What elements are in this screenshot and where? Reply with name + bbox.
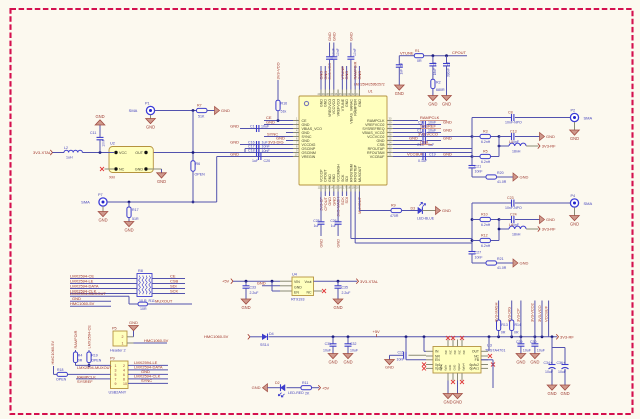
svg-text:R6: R6 xyxy=(196,162,201,166)
svg-text:VCCBUF: VCCBUF xyxy=(543,305,548,322)
svg-text:51K: 51K xyxy=(198,115,205,119)
svg-text:C5: C5 xyxy=(433,62,437,66)
svg-text:C26: C26 xyxy=(330,219,336,223)
svg-text:GND: GND xyxy=(453,365,457,371)
svg-text:+5V: +5V xyxy=(322,385,330,390)
svg-text:L4: L4 xyxy=(509,223,513,227)
svg-text:GND: GND xyxy=(221,108,230,113)
svg-text:SMA: SMA xyxy=(81,200,90,205)
svg-text:RT9193: RT9193 xyxy=(291,298,304,302)
svg-text:2.2uF: 2.2uF xyxy=(342,291,351,295)
svg-text:GND: GND xyxy=(570,136,579,141)
svg-text:C25: C25 xyxy=(313,219,319,223)
svg-text:EN: EN xyxy=(294,291,299,295)
svg-text:GND: GND xyxy=(146,125,155,130)
svg-text:HMC1060-5V: HMC1060-5V xyxy=(50,341,55,365)
svg-text:6.2nH: 6.2nH xyxy=(481,160,491,164)
svg-text:10uF: 10uF xyxy=(558,370,566,374)
svg-text:GND: GND xyxy=(570,222,579,227)
svg-text:U4: U4 xyxy=(292,273,297,277)
svg-text:RAMPCLK: RAMPCLK xyxy=(420,115,440,120)
svg-text:EN: EN xyxy=(435,358,440,362)
svg-text:P9: P9 xyxy=(110,357,115,361)
svg-text:+5V: +5V xyxy=(222,279,230,284)
svg-text:41.0R: 41.0R xyxy=(497,266,507,270)
svg-text:10: 10 xyxy=(123,382,127,386)
svg-text:3V3-DIG: 3V3-DIG xyxy=(507,307,512,322)
svg-text:P7: P7 xyxy=(98,193,103,197)
svg-text:GND: GND xyxy=(333,305,342,310)
svg-text:10nF: 10nF xyxy=(475,170,483,174)
svg-text:GND: GND xyxy=(320,239,324,248)
svg-text:GND: GND xyxy=(443,400,452,405)
svg-text:C19: C19 xyxy=(429,152,436,156)
svg-text:GND: GND xyxy=(560,391,569,396)
svg-text:C23: C23 xyxy=(507,196,514,200)
svg-text:1: 1 xyxy=(115,364,117,368)
svg-text:GND: GND xyxy=(230,123,239,128)
svg-text:GND: GND xyxy=(442,102,451,107)
svg-text:1uF: 1uF xyxy=(252,159,259,163)
svg-text:4: 4 xyxy=(123,368,125,372)
svg-text:CPOUT: CPOUT xyxy=(452,50,467,55)
svg-text:R3: R3 xyxy=(483,130,488,134)
svg-text:MUXOUT: MUXOUT xyxy=(155,299,173,304)
svg-text:C31: C31 xyxy=(325,342,331,346)
svg-text:MUXOUT: MUXOUT xyxy=(358,166,362,182)
svg-text:LMX2594-MUXOUT: LMX2594-MUXOUT xyxy=(77,365,112,370)
svg-text:GND: GND xyxy=(442,208,451,213)
svg-text:10nF: 10nF xyxy=(262,149,271,153)
svg-text:9: 9 xyxy=(115,382,117,386)
svg-text:GND: GND xyxy=(428,102,437,107)
svg-text:VTUNE: VTUNE xyxy=(400,50,414,55)
svg-text:GND: GND xyxy=(348,32,353,41)
svg-text:OPEN: OPEN xyxy=(195,173,206,177)
svg-text:GND: GND xyxy=(530,360,539,365)
svg-text:R13: R13 xyxy=(501,323,507,327)
svg-text:R2: R2 xyxy=(436,81,441,85)
svg-text:1uH: 1uH xyxy=(66,156,73,160)
svg-text:7: 7 xyxy=(115,377,117,381)
svg-text:C11: C11 xyxy=(90,131,96,135)
svg-text:10nF: 10nF xyxy=(102,139,106,147)
svg-text:GND: GND xyxy=(546,217,555,222)
svg-text:GND: GND xyxy=(129,320,138,325)
svg-text:SMA: SMA xyxy=(584,201,593,206)
svg-text:Vout: Vout xyxy=(304,280,311,284)
svg-text:C4: C4 xyxy=(399,63,403,67)
svg-text:GND: GND xyxy=(443,151,452,156)
svg-text:3V3-RF: 3V3-RF xyxy=(542,227,556,232)
svg-text:C35: C35 xyxy=(342,286,348,290)
svg-text:OPEN: OPEN xyxy=(91,359,101,363)
svg-text:R16: R16 xyxy=(281,102,288,106)
svg-text:L2: L2 xyxy=(64,146,68,150)
svg-text:GND: GND xyxy=(331,32,336,41)
svg-text:6pAv1: 6pAv1 xyxy=(469,367,479,371)
svg-text:VREGIN: VREGIN xyxy=(302,155,316,159)
svg-text:C13: C13 xyxy=(510,130,517,134)
svg-text:3V3-RF: 3V3-RF xyxy=(542,144,556,149)
svg-text:18nF: 18nF xyxy=(433,68,437,75)
svg-text:D2: D2 xyxy=(275,381,280,385)
svg-text:R19: R19 xyxy=(91,354,97,358)
svg-text:6.2nH: 6.2nH xyxy=(481,244,491,248)
svg-text:8: 8 xyxy=(123,377,125,381)
svg-text:GND: GND xyxy=(328,360,337,365)
svg-text:GND: GND xyxy=(516,360,525,365)
svg-text:GND: GND xyxy=(124,228,133,233)
svg-text:C6: C6 xyxy=(447,62,451,66)
svg-text:18nH: 18nH xyxy=(512,232,521,236)
svg-text:3V3-CP: 3V3-CP xyxy=(516,308,521,322)
svg-text:0R: 0R xyxy=(514,331,519,335)
svg-text:D3: D3 xyxy=(411,206,416,210)
svg-text:R21: R21 xyxy=(497,257,504,261)
svg-text:R5: R5 xyxy=(483,150,488,154)
svg-text:GND: GND xyxy=(135,168,144,172)
svg-text:10uF: 10uF xyxy=(323,349,331,353)
svg-text:SCK: SCK xyxy=(170,288,179,293)
svg-text:470R: 470R xyxy=(390,214,399,218)
svg-text:10R: 10R xyxy=(140,307,147,311)
svg-text:C1: C1 xyxy=(250,124,255,128)
svg-text:SS14: SS14 xyxy=(260,343,269,347)
svg-text:C27: C27 xyxy=(475,251,482,255)
svg-text:6p3v2: 6p3v2 xyxy=(457,363,461,371)
svg-text:3V3-VCO: 3V3-VCO xyxy=(537,305,542,322)
svg-text:C36: C36 xyxy=(557,361,563,365)
svg-text:390nF: 390nF xyxy=(447,68,451,77)
svg-text:SYSREF: SYSREF xyxy=(77,379,93,384)
svg-text:C30: C30 xyxy=(530,340,536,344)
svg-text:10nF-NPO: 10nF-NPO xyxy=(505,120,522,124)
svg-text:+5V: +5V xyxy=(373,329,381,334)
svg-text:3V3-VCO2: 3V3-VCO2 xyxy=(530,303,535,322)
svg-text:10nF: 10nF xyxy=(353,48,357,56)
svg-text:0R: 0R xyxy=(501,331,506,335)
svg-text:2: 2 xyxy=(123,364,125,368)
svg-text:OUT: OUT xyxy=(472,350,479,354)
svg-text:HMC1060-5V: HMC1060-5V xyxy=(144,338,169,343)
svg-text:P5: P5 xyxy=(112,327,117,331)
svg-text:VCCBUF: VCCBUF xyxy=(370,155,386,159)
svg-text:GND: GND xyxy=(257,281,266,286)
svg-text:R8: R8 xyxy=(138,269,143,273)
svg-text:0R: 0R xyxy=(78,359,83,363)
svg-text:GND: GND xyxy=(547,391,556,396)
svg-text:6p3v: 6p3v xyxy=(444,364,448,370)
svg-text:C29: C29 xyxy=(516,340,522,344)
svg-text:LED-BLUE: LED-BLUE xyxy=(417,216,435,220)
svg-text:1nF: 1nF xyxy=(399,69,403,75)
svg-text:GND: GND xyxy=(343,360,352,365)
svg-text:GND: GND xyxy=(252,385,261,390)
svg-text:R9: R9 xyxy=(391,204,396,208)
svg-text:10nF: 10nF xyxy=(397,357,405,361)
svg-text:10uF: 10uF xyxy=(545,370,553,374)
svg-text:0.1uF: 0.1uF xyxy=(418,159,428,163)
svg-text:GND: GND xyxy=(95,114,104,119)
svg-text:GND: GND xyxy=(357,71,362,80)
svg-text:NC: NC xyxy=(306,291,312,295)
svg-text:51R: 51R xyxy=(132,217,139,221)
svg-text:10uF: 10uF xyxy=(537,349,545,353)
svg-text:GND: GND xyxy=(453,400,462,405)
svg-text:GND: GND xyxy=(157,179,166,184)
svg-text:C24: C24 xyxy=(510,213,517,217)
svg-text:1uF: 1uF xyxy=(331,224,337,228)
svg-text:10uF: 10uF xyxy=(261,124,270,128)
svg-text:GND: GND xyxy=(520,261,529,266)
svg-text:GND: GND xyxy=(395,91,404,96)
svg-text:10uF: 10uF xyxy=(523,349,531,353)
svg-text:P2: P2 xyxy=(571,109,576,113)
svg-text:RAMPDIR: RAMPDIR xyxy=(73,330,78,348)
svg-text:C15: C15 xyxy=(398,350,404,354)
svg-text:10nF-NPO: 10nF-NPO xyxy=(505,206,522,210)
svg-text:FB: FB xyxy=(475,358,480,362)
svg-text:R7: R7 xyxy=(197,104,202,108)
svg-text:R11: R11 xyxy=(302,381,308,385)
svg-text:LMX2594-CE: LMX2594-CE xyxy=(86,325,91,349)
svg-text:VCC: VCC xyxy=(119,151,127,155)
svg-text:VIN: VIN xyxy=(294,280,300,284)
svg-text:R12: R12 xyxy=(481,234,488,238)
svg-text:6.2nH: 6.2nH xyxy=(481,223,491,227)
svg-text:TPS7A4701: TPS7A4701 xyxy=(485,349,505,353)
svg-text:C32: C32 xyxy=(350,342,356,346)
svg-text:C8: C8 xyxy=(508,111,513,115)
svg-text:0R: 0R xyxy=(417,59,422,63)
svg-text:10nF: 10nF xyxy=(475,256,483,260)
svg-text:3V3-RF: 3V3-RF xyxy=(560,334,574,339)
svg-text:R10: R10 xyxy=(481,213,488,217)
svg-text:3V3-XTAL: 3V3-XTAL xyxy=(360,279,379,284)
svg-text:3V3-VCO: 3V3-VCO xyxy=(276,62,281,79)
svg-text:GND: GND xyxy=(385,365,394,370)
svg-text:R1: R1 xyxy=(415,49,420,53)
svg-text:GND: GND xyxy=(241,305,250,310)
svg-text:6p4v: 6p4v xyxy=(439,364,443,370)
svg-text:L1: L1 xyxy=(509,140,513,144)
svg-text:GND: GND xyxy=(448,365,452,371)
svg-text:Header 2: Header 2 xyxy=(110,349,126,353)
svg-text:D4: D4 xyxy=(269,332,274,336)
svg-text:10nF: 10nF xyxy=(336,48,340,56)
svg-text:GND: GND xyxy=(344,71,349,80)
svg-text:USB2ANY: USB2ANY xyxy=(109,391,127,395)
svg-text:NC: NC xyxy=(119,168,125,172)
svg-text:6.2nH: 6.2nH xyxy=(481,140,491,144)
svg-text:GND: GND xyxy=(409,135,418,140)
svg-text:C21: C21 xyxy=(475,165,482,169)
svg-text:C20: C20 xyxy=(264,159,271,163)
svg-text:R18: R18 xyxy=(57,368,63,372)
svg-text:18nH: 18nH xyxy=(512,149,521,153)
svg-text:HMC1060-5V: HMC1060-5V xyxy=(70,301,95,306)
svg-text:GND: GND xyxy=(98,218,107,223)
svg-text:IN: IN xyxy=(435,350,439,354)
svg-text:41.0R: 41.0R xyxy=(497,180,507,184)
svg-text:6p0v4: 6p0v4 xyxy=(462,363,466,371)
svg-text:1uF: 1uF xyxy=(314,224,320,228)
svg-text:SMA: SMA xyxy=(129,108,138,113)
svg-text:R4: R4 xyxy=(78,354,83,358)
svg-text:GND: GND xyxy=(546,134,555,139)
svg-text:3V3-MASH: 3V3-MASH xyxy=(493,302,498,322)
svg-text:GND: GND xyxy=(443,135,452,140)
svg-text:OUT: OUT xyxy=(135,151,144,155)
svg-text:2K: 2K xyxy=(305,392,310,396)
svg-text:U2: U2 xyxy=(110,142,115,146)
svg-text:GND: GND xyxy=(520,175,529,180)
svg-text:OPEN: OPEN xyxy=(56,377,67,381)
svg-text:C34: C34 xyxy=(544,361,550,365)
svg-text:GND: GND xyxy=(337,239,341,248)
svg-text:R14: R14 xyxy=(515,323,521,327)
svg-text:GND: GND xyxy=(230,151,239,156)
svg-text:SMA: SMA xyxy=(584,115,593,120)
svg-text:680R: 680R xyxy=(436,88,445,92)
svg-text:51k: 51k xyxy=(281,110,287,114)
svg-text:SDI: SDI xyxy=(344,197,349,204)
svg-text:GND: GND xyxy=(230,139,239,144)
svg-text:HMC1060-5V: HMC1060-5V xyxy=(204,334,229,339)
svg-text:2.2uF: 2.2uF xyxy=(250,291,259,295)
svg-text:XM: XM xyxy=(109,176,115,180)
svg-text:GND: GND xyxy=(443,127,452,132)
svg-text:R20: R20 xyxy=(497,171,504,175)
svg-text:3V3-DIG: 3V3-DIG xyxy=(268,140,284,145)
svg-text:3V3-XTAL: 3V3-XTAL xyxy=(33,150,52,155)
svg-text:GND: GND xyxy=(294,285,302,289)
svg-text:U1: U1 xyxy=(368,90,373,94)
svg-text:6: 6 xyxy=(123,373,125,377)
svg-text:1: 1 xyxy=(122,341,124,345)
svg-text:CSB: CSB xyxy=(420,139,429,144)
svg-text:LED-RED: LED-RED xyxy=(288,391,304,395)
svg-text:VCCBUF: VCCBUF xyxy=(407,151,424,156)
svg-text:SYNC: SYNC xyxy=(141,378,152,383)
svg-text:GND: GND xyxy=(443,119,452,124)
svg-text:2: 2 xyxy=(122,335,124,339)
svg-text:3V3-VCCO: 3V3-VCCO xyxy=(418,131,438,136)
svg-text:3: 3 xyxy=(115,368,117,372)
svg-text:C18: C18 xyxy=(248,149,255,153)
svg-text:P4: P4 xyxy=(571,194,576,198)
svg-text:5: 5 xyxy=(115,373,117,377)
svg-text:C33: C33 xyxy=(250,286,256,290)
svg-text:P1: P1 xyxy=(145,102,150,106)
svg-text:R17: R17 xyxy=(132,208,139,212)
svg-text:GND: GND xyxy=(358,99,362,107)
svg-text:10uF: 10uF xyxy=(350,349,358,353)
svg-text:LMX2594/2595/2572: LMX2594/2595/2572 xyxy=(354,83,385,87)
svg-text:R11: R11 xyxy=(149,299,155,303)
